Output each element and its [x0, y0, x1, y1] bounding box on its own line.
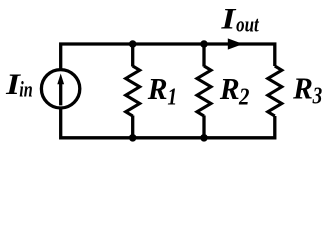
svg-text:2: 2: [238, 84, 249, 110]
svg-text:3: 3: [312, 84, 322, 110]
svg-text:R: R: [147, 71, 168, 106]
wire: R2 top lead: [202, 44, 205, 67]
resistor R2 zigzag: [197, 66, 211, 116]
wire: R2 bottom lead: [202, 116, 205, 138]
junction dot: R1 bottom node: [129, 134, 137, 142]
wire: R1 top lead: [131, 44, 134, 67]
resistor R3 zigzag: [268, 66, 282, 116]
wire: R1 bottom lead: [131, 116, 134, 138]
svg-text:out: out: [236, 12, 259, 37]
wire: bottom rail with source bottom lead and R3 bottom lead: [61, 107, 275, 138]
resistor R1 zigzag: [126, 66, 140, 116]
current direction arrowhead for I_out on top rail: [228, 38, 243, 49]
svg-text:R: R: [219, 71, 240, 106]
svg-text:R: R: [292, 71, 313, 106]
svg-text:in: in: [19, 77, 33, 102]
current source arrow (pointing up): [59, 82, 62, 106]
junction dot: R1 top node: [129, 40, 137, 48]
current source U1 circle: [41, 70, 79, 108]
junction dot: R2 bottom node: [200, 134, 208, 142]
wire: top rail with source top lead and R3 top lead: [61, 44, 275, 70]
junction dot: R2 top node: [200, 40, 208, 48]
svg-text:1: 1: [167, 84, 177, 110]
svg-text:I: I: [220, 3, 237, 36]
